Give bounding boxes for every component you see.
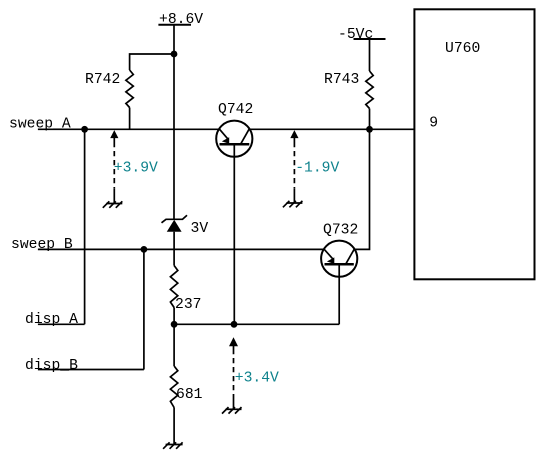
- svg-text:U760: U760: [445, 41, 480, 57]
- wire Q742 base down to node line: [233, 144, 235, 324]
- wire sweep_A horizontal to Q742 emitter: [38, 128, 220, 130]
- resistor 681: [170, 366, 177, 408]
- ground below +3.9V probe: [103, 189, 123, 208]
- wire vertical from sweep_A down to disp_A: [84, 129, 86, 324]
- ground below resistor 681: [163, 442, 183, 449]
- zener diode triangle (anode): [167, 220, 182, 232]
- wire 237 bottom to node line: [173, 308, 175, 325]
- power -5Vc label: [338, 27, 373, 43]
- power -5Vc rail bar: [354, 38, 386, 40]
- node junction dot left: [171, 321, 178, 328]
- node disp_A label: [25, 312, 78, 328]
- transistor Q742: [216, 121, 252, 157]
- svg-text:9: 9: [429, 116, 438, 132]
- power +8.6V label: [159, 12, 203, 28]
- wire -5Vc down to R743: [369, 39, 371, 71]
- wire emitter node line y=324: [174, 323, 339, 325]
- power +8.6V rail bar: [158, 24, 191, 26]
- svg-text:disp_B: disp_B: [25, 358, 78, 374]
- transistor Q732 label: [323, 223, 358, 239]
- svg-text:disp_A: disp_A: [25, 312, 78, 328]
- IC U760 label: [445, 41, 480, 57]
- node sweep_B label: [11, 237, 73, 253]
- pin 9 label: [429, 116, 438, 132]
- svg-text:Q732: Q732: [323, 223, 358, 239]
- svg-text:Q742: Q742: [218, 102, 253, 118]
- resistor 237 value label: [175, 297, 201, 313]
- resistor 681 value label: [176, 387, 203, 403]
- wire R742 bottom lead to sweep_A line: [129, 108, 131, 130]
- wire zener anode down to resistor 237: [173, 232, 175, 266]
- node junction dot R743/pin9: [366, 126, 373, 133]
- resistor R743 label: [324, 72, 359, 88]
- wire +8.6V vertical down to zener cathode: [173, 25, 175, 220]
- svg-text:-5Vc: -5Vc: [338, 27, 373, 43]
- svg-text:sweep_B: sweep_B: [11, 237, 73, 253]
- resistor R742 label: [85, 72, 120, 88]
- svg-text:R743: R743: [324, 72, 359, 88]
- node junction dot right: [231, 321, 238, 328]
- voltage label -1.9V: [295, 160, 339, 176]
- voltage label +3.4V: [235, 371, 279, 387]
- resistor R742: [126, 70, 133, 108]
- transistor Q742 label: [218, 102, 253, 118]
- node junction dot on sweep_A: [81, 126, 88, 133]
- probe arrow +3.9V: [110, 130, 118, 189]
- node junction dot at +8.6V branch: [171, 51, 178, 58]
- node junction dot on sweep_B: [141, 246, 148, 253]
- wire vertical from sweep_B down to disp_B: [143, 249, 145, 369]
- resistor R743: [366, 71, 373, 109]
- wire disp_A to vertical: [38, 323, 85, 325]
- wire sweep_A line from Q742 collector to U760: [249, 128, 415, 130]
- probe arrow +3.4V: [229, 337, 238, 397]
- IC U760 box: [414, 9, 534, 279]
- svg-text:sweep_A: sweep_A: [9, 117, 71, 133]
- wire 681 bottom to ground: [173, 408, 175, 445]
- voltage label +3.9V: [114, 160, 158, 176]
- node disp_B label: [25, 358, 78, 374]
- wire R743 bottom to node: [369, 109, 371, 130]
- probe arrow -1.9V: [290, 130, 298, 189]
- resistor 237: [170, 266, 177, 308]
- zener value label 3V: [191, 221, 209, 237]
- wire branch to R742 top: [130, 54, 174, 70]
- wire node line down to resistor 681: [173, 324, 175, 366]
- svg-text:3V: 3V: [191, 221, 209, 237]
- wire sweep_B horizontal to Q732 emitter: [38, 248, 324, 250]
- wire Q732 base down to node line: [338, 264, 340, 324]
- svg-text:-1.9V: -1.9V: [295, 160, 339, 176]
- wire vertical down to Q732 collector: [354, 129, 369, 249]
- transistor Q732: [321, 241, 357, 277]
- node sweep_A label: [9, 117, 71, 133]
- ground below -1.9V probe: [283, 189, 303, 208]
- zener diode bar (cathode): [162, 215, 188, 223]
- svg-text:+3.4V: +3.4V: [235, 371, 279, 387]
- svg-text:681: 681: [176, 387, 203, 403]
- ground below +3.4V probe: [222, 398, 242, 414]
- wire disp_B to vertical: [38, 369, 144, 371]
- svg-text:R742: R742: [85, 72, 120, 88]
- svg-text:+3.9V: +3.9V: [114, 160, 158, 176]
- svg-text:237: 237: [175, 297, 201, 313]
